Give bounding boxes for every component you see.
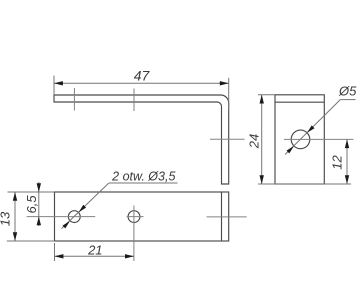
svg-text:13: 13 xyxy=(0,211,13,226)
svg-text:21: 21 xyxy=(87,243,102,258)
dim 6,5 bottom arrow (outside, pointing up) xyxy=(37,217,41,226)
dim 21 right arrow xyxy=(125,254,134,258)
dim 13 top arrow xyxy=(13,192,17,201)
side view hole centerline tick 1 xyxy=(73,88,75,111)
dim 21 left extension xyxy=(54,243,56,261)
dim 13 bottom extension xyxy=(7,240,55,242)
bottom view bend line xyxy=(221,192,223,241)
dim 12 dimension line xyxy=(346,139,348,184)
dim 13 dimension line xyxy=(14,192,16,241)
svg-text:6,5: 6,5 xyxy=(24,195,39,214)
hole Ø5 xyxy=(291,130,310,149)
leader arrow lower at Ø5 hole xyxy=(287,146,294,153)
dim 47 dimension line xyxy=(54,82,229,84)
dim 6,5 top arrow (outside, pointing down) xyxy=(37,183,41,192)
dim 12 bottom arrow xyxy=(345,175,349,184)
hole left Ø3,5 xyxy=(68,211,80,223)
end view thickness line xyxy=(275,101,324,103)
hole right Ø3,5 xyxy=(128,211,140,223)
dim 47 right extension line xyxy=(228,78,230,110)
left hole horizontal centerline xyxy=(27,216,96,218)
dim 24 top extension xyxy=(258,94,275,96)
right hole horizontal centerline xyxy=(127,216,144,218)
dim 47 right arrow xyxy=(220,81,229,85)
dim 24 / dim 12 bottom extension xyxy=(258,183,351,185)
dim 6,5 dimension line xyxy=(38,182,40,226)
dim 13 bottom arrow xyxy=(13,232,17,241)
side view L-bracket outline xyxy=(54,95,229,184)
leader line 2 otw. diagonal xyxy=(62,183,109,229)
end view outline xyxy=(275,95,324,184)
svg-text:12: 12 xyxy=(330,155,345,170)
leader arrow upper at left hole xyxy=(79,205,86,212)
svg-text:47: 47 xyxy=(134,68,151,84)
dim 13 top extension xyxy=(8,191,55,193)
dim 12 top arrow xyxy=(345,139,349,148)
svg-text:Ø5: Ø5 xyxy=(338,83,357,98)
leader line Ø5 diagonal xyxy=(285,100,340,155)
bottom view plate outline xyxy=(55,192,229,241)
svg-text:2 otw. Ø3,5: 2 otw. Ø3,5 xyxy=(111,170,175,184)
leader line 2 otw. shelf xyxy=(109,182,178,184)
band centerline xyxy=(207,216,247,218)
Ø5 hole horizontal centerline / dim 12 top extension xyxy=(284,138,354,140)
dim 47 left extension line xyxy=(53,76,55,95)
dim 24 top arrow xyxy=(260,95,264,104)
dim 24 dimension line xyxy=(261,95,263,184)
leader arrow lower at left hole xyxy=(63,221,70,228)
leader arrow upper at Ø5 hole xyxy=(307,125,314,132)
side view hole centerline tick 2 xyxy=(133,89,135,112)
dim 47 left arrow xyxy=(54,81,63,85)
side view leg hole centerline tick xyxy=(210,138,245,140)
right hole vertical centerline / dim 21 right extension xyxy=(133,206,135,262)
dim 21 left arrow xyxy=(55,254,64,258)
leader line Ø5 shelf xyxy=(340,99,355,101)
svg-text:24: 24 xyxy=(247,134,262,149)
dim 21 dimension line xyxy=(55,255,134,257)
dim 24 bottom arrow xyxy=(260,175,264,184)
